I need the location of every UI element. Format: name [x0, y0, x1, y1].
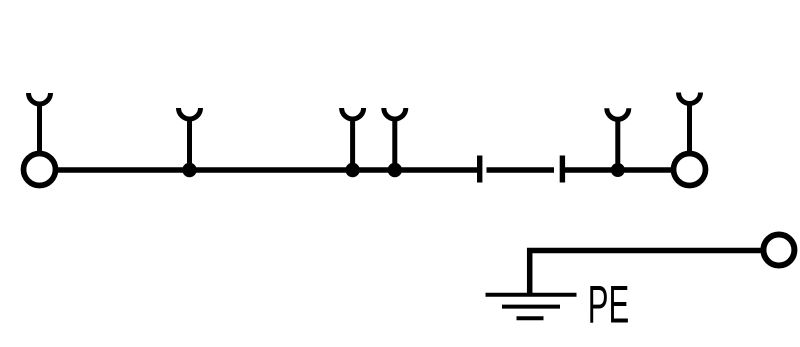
- terminal circle X1 (left): [24, 154, 56, 186]
- node A junction dot: [182, 163, 196, 177]
- clamp symbol at node A: [179, 108, 201, 170]
- node B junction dot: [345, 163, 359, 177]
- terminal circle X3 (PE terminal): [763, 235, 794, 266]
- svg-text:PE: PE: [588, 276, 630, 335]
- node D junction dot: [611, 163, 625, 177]
- wire: right segment of main rail: [562, 167, 672, 172]
- disconnect tick 2: [560, 156, 565, 183]
- node C junction dot: [388, 163, 402, 177]
- clamp symbol at node D: [607, 108, 629, 170]
- wire: floating link bar: [487, 167, 555, 172]
- wire: left segment of main rail: [57, 167, 480, 172]
- disconnect tick 1: [477, 156, 482, 183]
- terminal circle X2 (right): [674, 154, 706, 186]
- ground (PE) symbol: [486, 295, 577, 319]
- clamp symbol at node C: [384, 108, 406, 170]
- wire: PE branch from X3 to ground: [530, 251, 761, 295]
- clamp symbol above X1: [29, 93, 51, 152]
- clamp symbol above X2: [679, 93, 701, 153]
- clamp symbol at node B: [342, 108, 364, 170]
